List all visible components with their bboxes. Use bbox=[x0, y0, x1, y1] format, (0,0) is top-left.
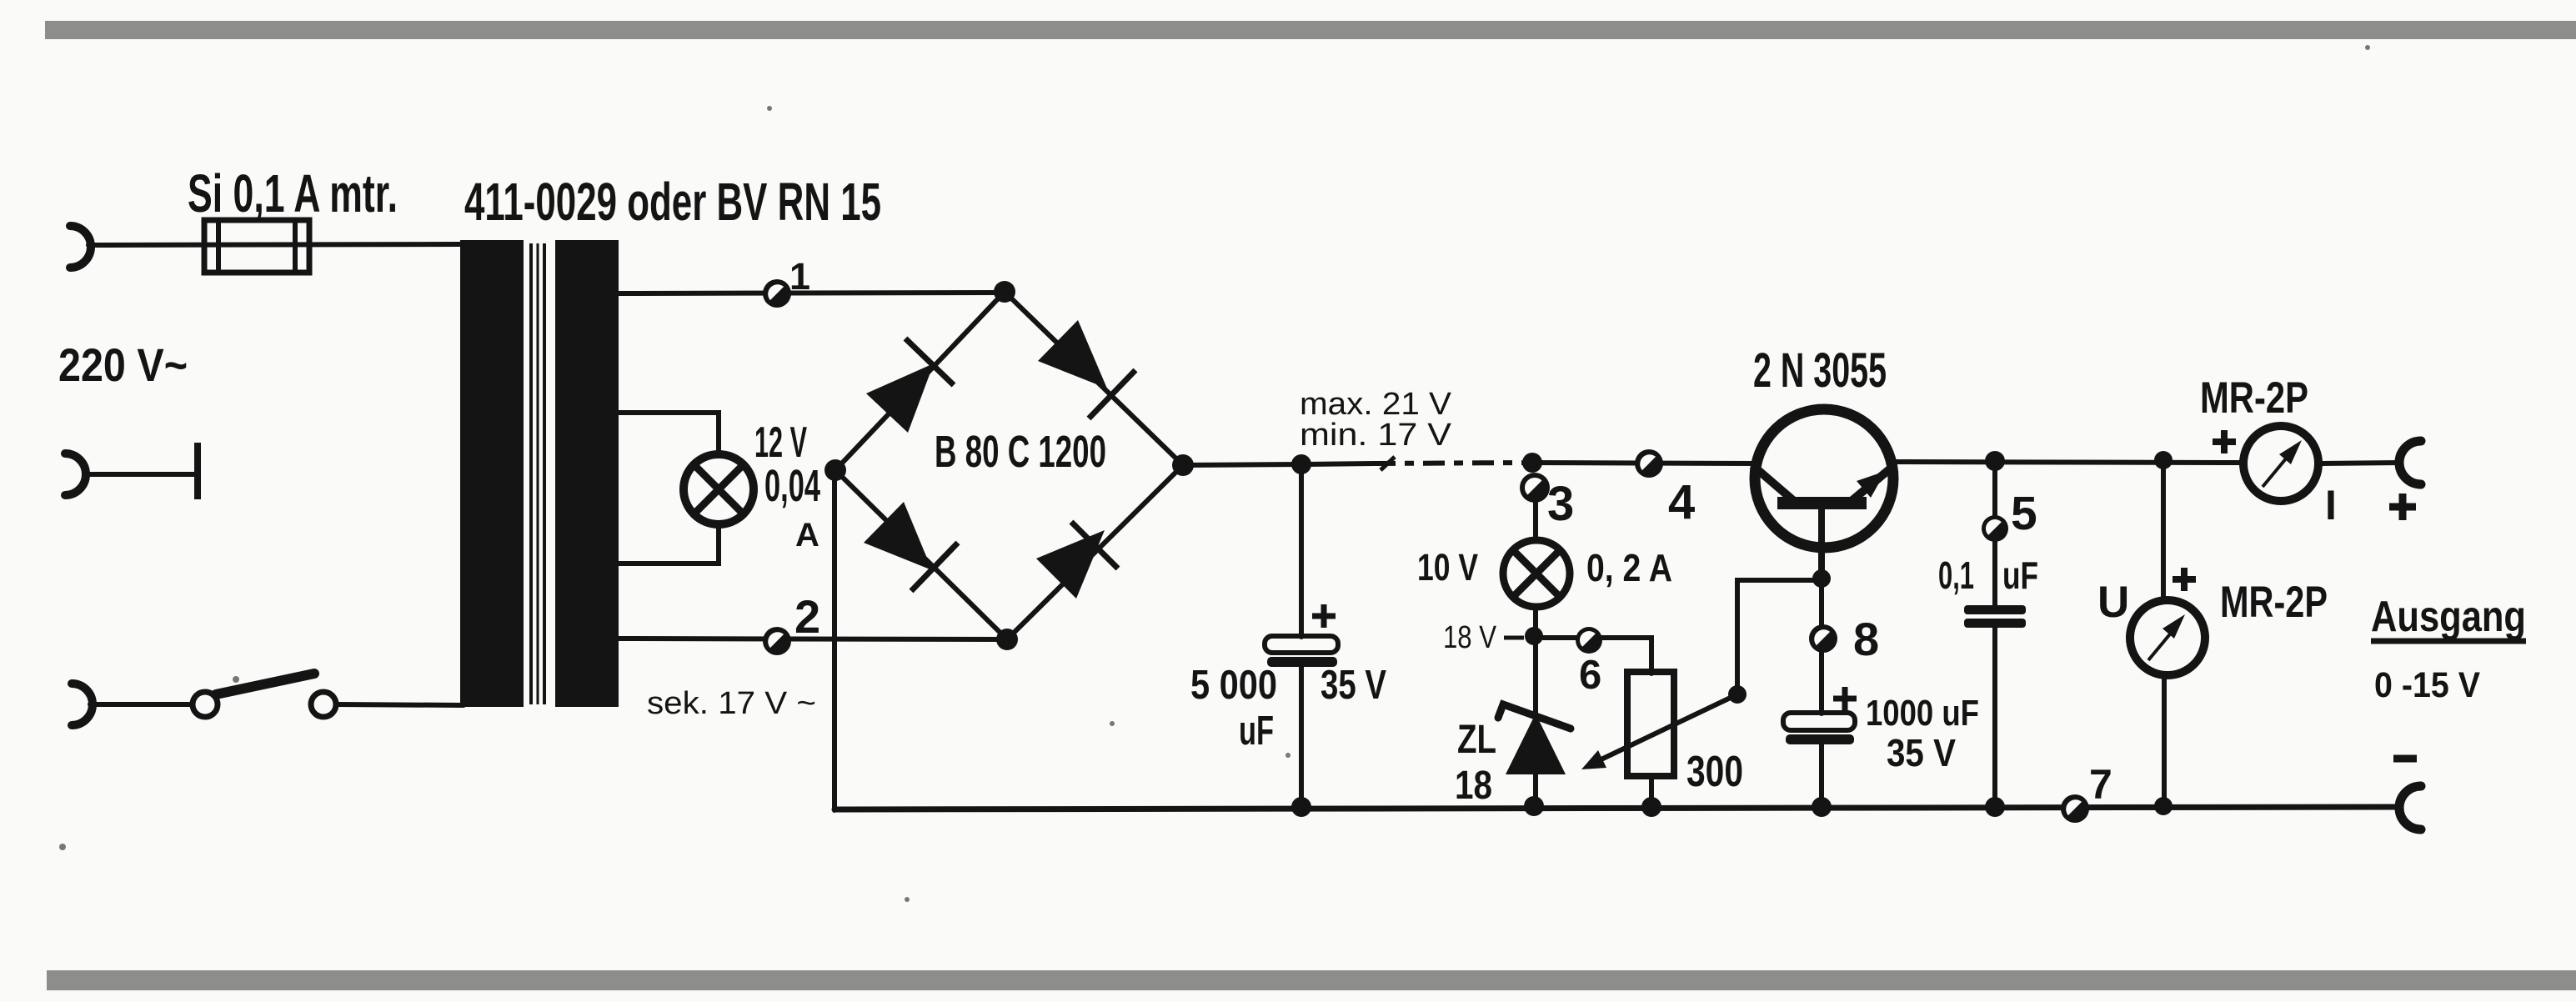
switch S1 bbox=[193, 674, 336, 717]
svg-text:0, 2 A: 0, 2 A bbox=[1586, 546, 1672, 589]
plug pin bar bbox=[194, 443, 201, 499]
wire base junction down bbox=[1819, 579, 1824, 714]
terminal 4 bbox=[1635, 449, 1663, 478]
svg-text:0,04: 0,04 bbox=[764, 461, 820, 511]
capacitor C2 bottom plate bbox=[1786, 734, 1854, 744]
wire U meter column top bbox=[2161, 460, 2166, 599]
fuse Si 0,1A bbox=[204, 220, 309, 273]
svg-text:12 V: 12 V bbox=[754, 418, 807, 467]
plus sign voltmeter bbox=[2173, 568, 2196, 591]
svg-text:4: 4 bbox=[1668, 475, 1695, 529]
plus rail to transistor bbox=[1531, 463, 1756, 463]
svg-text:35 V: 35 V bbox=[1887, 731, 1956, 774]
wire bridge left node down (minus rail riser) bbox=[832, 470, 837, 810]
node bridge top bbox=[994, 281, 1015, 303]
plus sign C1 bbox=[1312, 604, 1336, 628]
node C3 bottom bbox=[1985, 797, 2005, 817]
node pot bottom bbox=[1641, 797, 1661, 817]
minus bottom rail bbox=[834, 807, 2399, 809]
transformer TR1 primary winding bar bbox=[460, 240, 524, 707]
node bridge bottom bbox=[996, 629, 1018, 650]
svg-text:300: 300 bbox=[1686, 748, 1743, 796]
node at C1 top bbox=[1291, 454, 1311, 474]
terminal 3 bbox=[1520, 473, 1550, 503]
diode D2 (top-right arm) bbox=[1038, 320, 1135, 418]
wire C1 top lead bbox=[1299, 464, 1304, 637]
svg-text:MR-2P: MR-2P bbox=[2200, 373, 2308, 423]
svg-text:uF: uF bbox=[2002, 554, 2038, 597]
plus sign output bbox=[2389, 493, 2416, 520]
wire voltmeter to minus rail bbox=[2162, 677, 2167, 806]
svg-text:1000 uF: 1000 uF bbox=[1866, 693, 1979, 734]
svg-text:max. 21 V: max. 21 V bbox=[1300, 387, 1452, 422]
lamp 12V 0,04A bbox=[684, 454, 754, 524]
svg-text:10 V: 10 V bbox=[1417, 546, 1478, 589]
wire C3 bottom lead bbox=[1992, 628, 1997, 807]
svg-text:uF: uF bbox=[1239, 709, 1274, 754]
wire C2 bottom lead bbox=[1819, 744, 1824, 807]
terminal 8 bbox=[1809, 624, 1837, 653]
lamp 10V 0,2A bbox=[1503, 540, 1570, 607]
terminal 5 bbox=[1982, 515, 2008, 542]
svg-text:18: 18 bbox=[1455, 764, 1492, 808]
wire C1 bottom lead bbox=[1299, 667, 1304, 809]
svg-text:2: 2 bbox=[794, 590, 820, 643]
svg-text:5: 5 bbox=[2011, 487, 2037, 540]
svg-text:35 V: 35 V bbox=[1321, 663, 1386, 708]
svg-text:min. 17 V: min. 17 V bbox=[1300, 418, 1452, 453]
node zener bottom bbox=[1524, 796, 1544, 816]
diode D3 (left-bottom arm) bbox=[864, 502, 958, 591]
wire N stub bbox=[84, 472, 194, 477]
svg-text:0 -15 V: 0 -15 V bbox=[2374, 665, 2480, 705]
svg-text:18 V: 18 V bbox=[1443, 620, 1497, 655]
svg-text:ZL: ZL bbox=[1457, 718, 1496, 762]
wire terminal 5 to C3 bbox=[1992, 542, 1997, 606]
node 18V bbox=[1525, 627, 1543, 645]
wire zener to minus rail bbox=[1533, 774, 1538, 807]
svg-text:B 80 C 1200: B 80 C 1200 bbox=[935, 427, 1106, 477]
wire wiper to base junction bbox=[1737, 580, 1822, 694]
Ausgang underline bbox=[2371, 639, 2526, 644]
svg-text:8: 8 bbox=[1853, 613, 1879, 665]
svg-text:U: U bbox=[2097, 578, 2129, 627]
wire to switch bbox=[90, 702, 191, 707]
capacitor C1 5000uF top plate bbox=[1265, 636, 1338, 653]
capacitor C1 bottom plate bbox=[1267, 657, 1337, 667]
terminal 1 bbox=[763, 279, 791, 308]
zener ZL18 body bbox=[1506, 714, 1566, 774]
wire C3 top lead bbox=[1992, 461, 1997, 517]
potentiometer R1 300 body bbox=[1627, 672, 1674, 776]
wire switch to transformer bbox=[337, 704, 464, 705]
plus sign C2 bbox=[1833, 687, 1857, 710]
svg-text:5 000: 5 000 bbox=[1190, 663, 1277, 708]
wire lamp to 18V node bbox=[1533, 611, 1538, 717]
wire secondary tap 2 to bridge bottom bbox=[619, 639, 1007, 639]
transformer TR1 secondary winding bar bbox=[555, 240, 619, 707]
node U meter top bbox=[2154, 451, 2173, 469]
svg-text:sek. 17 V ~: sek. 17 V ~ bbox=[647, 686, 816, 721]
wire ammeter to + output bbox=[2323, 463, 2401, 463]
svg-text:220 V~: 220 V~ bbox=[58, 338, 188, 391]
node at C1 bottom bbox=[1291, 797, 1311, 817]
node C2 bottom bbox=[1812, 797, 1832, 817]
18V pointer dash bbox=[1504, 636, 1524, 640]
input terminal L (mains live) bbox=[70, 226, 91, 268]
wire secondary mid tap to pilot lamp bbox=[619, 413, 719, 454]
svg-text:1: 1 bbox=[789, 255, 810, 298]
output terminal + bbox=[2399, 441, 2421, 484]
pot wiper arrow bbox=[1581, 694, 1737, 769]
terminal 6 bbox=[1576, 627, 1602, 654]
svg-text:A: A bbox=[795, 517, 819, 554]
transformer core laminations bbox=[531, 243, 544, 704]
svg-text:2 N 3055: 2 N 3055 bbox=[1753, 343, 1887, 398]
wire 18V node to terminal 6 and pot bbox=[1543, 638, 1651, 674]
svg-text:411-0029 oder BV RN 15: 411-0029 oder BV RN 15 bbox=[464, 172, 881, 232]
wire terminal 3 to lamp bbox=[1533, 500, 1538, 539]
node base junction bbox=[1812, 569, 1831, 588]
minus sign output bbox=[2393, 755, 2417, 763]
svg-text:Si 0,1 A mtr.: Si 0,1 A mtr. bbox=[188, 163, 398, 223]
node at C3 top bbox=[1985, 451, 2005, 471]
plus sign ammeter bbox=[2213, 430, 2236, 453]
terminal 7 bbox=[2061, 794, 2089, 823]
svg-text:Ausgang: Ausgang bbox=[2371, 593, 2526, 641]
diode D4 (bottom-right arm) bbox=[1036, 522, 1118, 599]
svg-text:I: I bbox=[2325, 482, 2337, 529]
plus rail transistor to output bbox=[1892, 462, 2240, 463]
input terminal N (mains neutral) bbox=[65, 453, 86, 495]
node at terminal 3 bbox=[1522, 453, 1542, 473]
zener ZL18 cathode bar bbox=[1498, 704, 1571, 729]
svg-text:0,1: 0,1 bbox=[1938, 554, 1974, 597]
wire pot bottom lead bbox=[1649, 776, 1654, 807]
top border bar bbox=[45, 21, 2576, 39]
input terminal (switched pole) bbox=[72, 684, 93, 725]
callout dash bbox=[1381, 457, 1395, 470]
wire L to fuse to transformer bbox=[88, 244, 460, 245]
node voltmeter bottom bbox=[2154, 797, 2173, 815]
node bridge left bbox=[824, 459, 846, 481]
plus rail dash-dot measured section bbox=[1305, 463, 1374, 464]
capacitor C3 0,1uF plates bbox=[1964, 605, 2026, 628]
plus rail: bridge right node to transistor bbox=[1183, 464, 1305, 465]
wire secondary tap to terminal 1 and bridge top bbox=[619, 293, 1005, 293]
diode D1 (left-top arm) bbox=[866, 338, 954, 433]
ammeter I MR-2P bbox=[2243, 426, 2318, 501]
capacitor C2 1000uF top plate bbox=[1783, 713, 1855, 730]
bottom border bar bbox=[47, 970, 2576, 990]
svg-text:3: 3 bbox=[1547, 477, 1574, 531]
transistor Q1 2N3055 bbox=[1752, 409, 1893, 579]
svg-text:6: 6 bbox=[1579, 653, 1601, 698]
svg-text:MR-2P: MR-2P bbox=[2220, 578, 2328, 627]
voltmeter U MR-2P bbox=[2130, 600, 2205, 675]
output terminal - bbox=[2399, 786, 2421, 829]
svg-text:7: 7 bbox=[2089, 761, 2112, 808]
node bridge right bbox=[1172, 454, 1194, 476]
terminal 2 bbox=[763, 627, 791, 655]
node wiper top bbox=[1728, 685, 1747, 704]
bridge rectifier B80C1200 diamond wires bbox=[835, 292, 1183, 639]
wire lamp bottom to secondary tap bbox=[619, 525, 719, 564]
